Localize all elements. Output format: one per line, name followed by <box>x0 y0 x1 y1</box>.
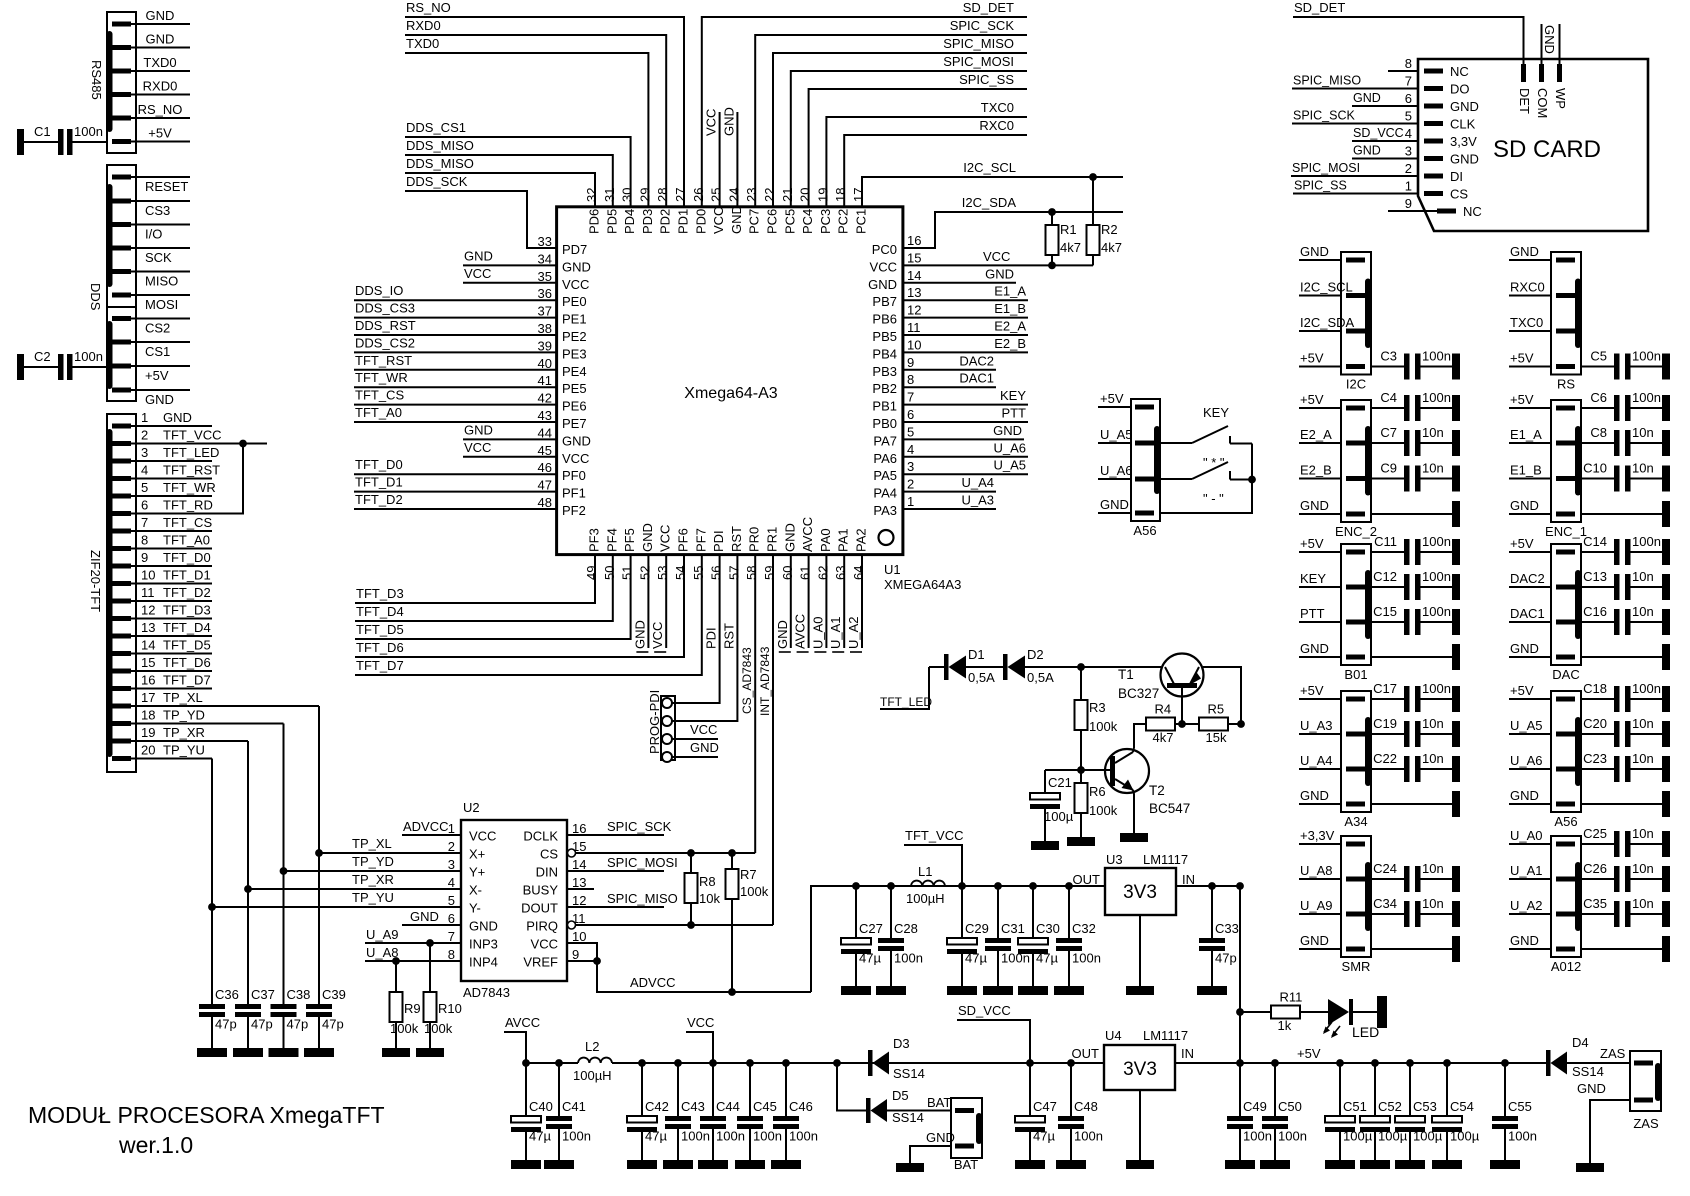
svg-text:SD CARD: SD CARD <box>1493 136 1601 163</box>
svg-text:SD_DET: SD_DET <box>1294 0 1345 15</box>
svg-text:9: 9 <box>141 550 148 565</box>
connector DDS box <box>107 165 136 307</box>
LED <box>1328 999 1349 1025</box>
svg-text:TP_YU: TP_YU <box>352 890 394 905</box>
svg-text:U3: U3 <box>1106 852 1123 867</box>
ZIF20-TFT pin 7 TFT_CS <box>112 529 131 534</box>
net label TFT_VCC <box>904 845 962 886</box>
svg-text:U_A4: U_A4 <box>961 475 994 490</box>
capacitor C53 100u <box>1409 1063 1411 1116</box>
svg-text:4k7: 4k7 <box>1153 730 1174 745</box>
svg-text:PC2: PC2 <box>836 209 851 234</box>
svg-text:100µH: 100µH <box>573 1068 612 1083</box>
svg-text:X-: X- <box>469 883 482 898</box>
svg-text:10n: 10n <box>1422 461 1444 476</box>
svg-text:R2: R2 <box>1101 222 1118 237</box>
svg-text:48: 48 <box>538 495 552 510</box>
svg-text:21: 21 <box>780 188 795 202</box>
svg-text:C44: C44 <box>716 1099 740 1114</box>
svg-text:C41: C41 <box>562 1099 586 1114</box>
svg-text:BC547: BC547 <box>1149 801 1190 816</box>
svg-text:3,3V: 3,3V <box>1450 134 1477 149</box>
ZIF20-TFT pin 20 TP_YU <box>112 756 131 761</box>
transistor T1 BC327 <box>1161 654 1204 697</box>
svg-text:47µ: 47µ <box>965 951 987 966</box>
U3 ground pin <box>1139 915 1141 986</box>
diode D5 SS14 <box>837 1063 868 1111</box>
wire TP_YD to U2 <box>284 870 462 872</box>
svg-text:DDS_CS2: DDS_CS2 <box>355 335 415 350</box>
svg-text:PROG-PDI: PROG-PDI <box>647 690 662 754</box>
svg-text:C38: C38 <box>287 987 311 1002</box>
svg-text:CS: CS <box>1450 187 1468 202</box>
svg-text:VCC: VCC <box>704 109 719 136</box>
transistor T2 BC547 <box>1105 749 1149 793</box>
svg-text:PE6: PE6 <box>562 399 587 414</box>
resistor R2 4k7 <box>1089 173 1097 181</box>
connector ZIF20-TFT box <box>107 414 136 772</box>
svg-text:C55: C55 <box>1508 1099 1532 1114</box>
svg-text:PF6: PF6 <box>676 528 691 552</box>
I2C pin GND <box>1346 258 1365 263</box>
svg-text:OUT: OUT <box>1072 1046 1100 1061</box>
svg-text:+5V: +5V <box>1300 351 1324 366</box>
wire T2 collector <box>1133 748 1134 752</box>
svg-text:TFT_D4: TFT_D4 <box>356 604 404 619</box>
svg-text:C1: C1 <box>34 124 51 139</box>
svg-text:24: 24 <box>726 188 741 202</box>
svg-text:GND: GND <box>690 740 719 755</box>
svg-text:20: 20 <box>141 743 155 758</box>
svg-text:DAC: DAC <box>1552 667 1579 682</box>
svg-text:10n: 10n <box>1632 861 1654 876</box>
svg-text:100n: 100n <box>894 951 923 966</box>
svg-text:IN: IN <box>1182 872 1195 887</box>
svg-text:E2_B: E2_B <box>1300 463 1332 478</box>
wire KEY common rail <box>1160 444 1252 514</box>
svg-text:100µ: 100µ <box>1044 809 1074 824</box>
diode D1 0,5A <box>929 666 944 668</box>
wire C33 junction down to +5V rail <box>1239 886 1241 1063</box>
svg-text:PD4: PD4 <box>622 209 637 234</box>
svg-text:C29: C29 <box>965 921 989 936</box>
svg-text:MODUŁ PROCESORA XmegaTFT: MODUŁ PROCESORA XmegaTFT <box>28 1102 385 1128</box>
svg-text:8: 8 <box>141 533 148 548</box>
svg-text:PF7: PF7 <box>693 528 708 552</box>
svg-text:SD_DET: SD_DET <box>963 0 1014 15</box>
svg-text:PB0: PB0 <box>872 416 897 431</box>
svg-text:PB3: PB3 <box>872 364 897 379</box>
svg-text:C15: C15 <box>1373 604 1397 619</box>
svg-text:I2C_SDA: I2C_SDA <box>962 195 1017 210</box>
svg-text:43: 43 <box>538 408 552 423</box>
svg-text:U_A8: U_A8 <box>366 945 399 960</box>
svg-text:100n: 100n <box>1072 951 1101 966</box>
svg-text:10n: 10n <box>1632 896 1654 911</box>
svg-text:GND: GND <box>782 523 797 552</box>
svg-text:PB6: PB6 <box>872 312 897 327</box>
svg-text:100n: 100n <box>1074 1129 1103 1144</box>
SD CARD pin 5 CLK <box>1424 121 1443 126</box>
svg-text:TFT_D7: TFT_D7 <box>163 673 211 688</box>
svg-text:TP_XR: TP_XR <box>352 872 394 887</box>
svg-text:D3: D3 <box>893 1036 910 1051</box>
svg-text:T1: T1 <box>1118 667 1134 682</box>
op-amp U2 AD7843 body <box>461 820 567 981</box>
svg-text:L1: L1 <box>918 864 932 879</box>
svg-text:A56: A56 <box>1554 814 1577 829</box>
capacitor C21 100u <box>1045 769 1081 771</box>
svg-text:RS485: RS485 <box>89 60 104 100</box>
capacitor C10 10n on ENC_1 E1_B <box>1556 476 1575 481</box>
svg-text:SPIC_SCK: SPIC_SCK <box>950 18 1015 33</box>
svg-text:GND: GND <box>1300 933 1329 948</box>
svg-text:A012: A012 <box>1551 959 1581 974</box>
svg-text:DAC2: DAC2 <box>1510 571 1545 586</box>
svg-text:DO: DO <box>1450 82 1470 97</box>
svg-text:TXD0: TXD0 <box>143 55 176 70</box>
svg-text:R11: R11 <box>1280 990 1303 1005</box>
RS485 pin RS_NO <box>112 116 131 121</box>
ZIF20-TFT pin 17 TP_XL <box>112 704 131 709</box>
svg-text:54: 54 <box>673 566 688 580</box>
svg-text:19: 19 <box>141 725 155 740</box>
svg-text:wer.1.0: wer.1.0 <box>118 1132 193 1158</box>
capacitor C35 10n on A012 U_A2 <box>1556 912 1575 917</box>
svg-text:20: 20 <box>798 188 813 202</box>
svg-text:NC: NC <box>1450 64 1469 79</box>
svg-text:C9: C9 <box>1380 461 1397 476</box>
wire T2 emitter to ground <box>1133 790 1134 833</box>
svg-text:C8: C8 <box>1590 425 1607 440</box>
svg-text:SS14: SS14 <box>892 1110 924 1125</box>
svg-text:37: 37 <box>538 304 552 319</box>
svg-text:47µ: 47µ <box>529 1129 551 1144</box>
svg-text:9: 9 <box>1405 196 1412 211</box>
svg-text:R1: R1 <box>1060 222 1077 237</box>
svg-text:10n: 10n <box>1632 461 1654 476</box>
capacitor C5 100n on RS +5V <box>1556 364 1575 369</box>
connector I2C box <box>1341 252 1371 375</box>
svg-text:R10: R10 <box>438 1001 462 1016</box>
svg-text:DAC1: DAC1 <box>959 371 994 386</box>
svg-text:Y-: Y- <box>469 901 481 916</box>
svg-text:CS2: CS2 <box>145 321 170 336</box>
svg-text:I/O: I/O <box>145 227 162 242</box>
svg-text:18: 18 <box>141 708 155 723</box>
svg-text:U1: U1 <box>884 562 901 577</box>
A56 pin U_A6 <box>1135 477 1154 482</box>
svg-text:SD_VCC: SD_VCC <box>1353 126 1404 140</box>
svg-text:17: 17 <box>141 690 155 705</box>
wire TP_YU vertical <box>211 759 213 908</box>
DDS pin +5V <box>112 364 131 369</box>
svg-text:39: 39 <box>538 338 552 353</box>
svg-text:E2_A: E2_A <box>994 319 1026 334</box>
DDS pin GND <box>112 388 131 393</box>
capacitor C34 10n on SMR U_A9 <box>1346 912 1365 917</box>
svg-text:1: 1 <box>907 494 914 509</box>
wire TP_XL to U2 <box>319 852 461 854</box>
capacitor C15 100n on B01 PTT <box>1346 620 1365 625</box>
svg-text:GND: GND <box>632 620 647 649</box>
svg-text:31: 31 <box>602 188 617 202</box>
svg-text:T2: T2 <box>1149 783 1165 798</box>
svg-text:12: 12 <box>572 893 586 908</box>
svg-text:4k7: 4k7 <box>1060 240 1081 255</box>
svg-text:VCC: VCC <box>711 207 726 234</box>
svg-text:GND: GND <box>1542 25 1557 54</box>
svg-text:11: 11 <box>907 320 921 335</box>
DDS pin SCK <box>112 246 131 251</box>
svg-text:ADVCC: ADVCC <box>403 819 449 834</box>
SD CARD pin COM <box>1539 64 1544 82</box>
U1 pin-1 index circle <box>879 530 894 545</box>
svg-text:PD5: PD5 <box>604 209 619 234</box>
svg-text:10: 10 <box>141 568 155 583</box>
svg-text:55: 55 <box>691 566 706 580</box>
svg-text:PB5: PB5 <box>872 329 897 344</box>
svg-text:C16: C16 <box>1583 604 1607 619</box>
svg-text:100n: 100n <box>74 349 103 364</box>
wire T2 base <box>1081 769 1110 771</box>
svg-text:63: 63 <box>833 566 848 580</box>
svg-text:INP3: INP3 <box>469 937 498 952</box>
svg-text:0,5A: 0,5A <box>968 670 995 685</box>
DDS pin CS2 <box>112 316 131 321</box>
capacitor C20 10n on A56 U_A5 <box>1556 732 1575 737</box>
svg-text:100n: 100n <box>1278 1129 1307 1144</box>
svg-text:BC327: BC327 <box>1118 686 1159 701</box>
svg-text:GND: GND <box>721 107 736 136</box>
RS485 pin GND <box>112 45 131 50</box>
svg-text:GND: GND <box>163 410 192 425</box>
BAT pin BAT <box>955 1108 974 1113</box>
SD CARD body <box>1418 59 1648 231</box>
svg-text:16: 16 <box>907 233 921 248</box>
A56 pin GND <box>1135 511 1154 516</box>
RS pin GND <box>1556 258 1575 263</box>
svg-text:10n: 10n <box>1422 751 1444 766</box>
svg-text:10k: 10k <box>699 891 720 906</box>
svg-text:3: 3 <box>448 857 455 872</box>
svg-text:TFT_D1: TFT_D1 <box>355 475 403 490</box>
svg-text:11: 11 <box>141 585 155 600</box>
svg-text:U_A1: U_A1 <box>1510 863 1543 878</box>
svg-text:TFT_LED: TFT_LED <box>880 695 932 709</box>
PROG-PDI pin 1 <box>662 698 672 708</box>
svg-text:WP: WP <box>1553 88 1568 109</box>
svg-text:R9: R9 <box>404 1001 421 1016</box>
wire TP_XR to U2 <box>248 888 461 890</box>
svg-text:+5V: +5V <box>1510 392 1534 407</box>
svg-text:GND: GND <box>1510 933 1539 948</box>
svg-text:VCC: VCC <box>687 1015 714 1030</box>
svg-text:MISO: MISO <box>145 274 178 289</box>
svg-text:PA1: PA1 <box>836 528 851 552</box>
svg-text:TFT_D4: TFT_D4 <box>163 620 211 635</box>
svg-text:13: 13 <box>141 620 155 635</box>
DDS pin CS3 <box>112 199 131 204</box>
svg-text:PA6: PA6 <box>873 451 897 466</box>
svg-text:X+: X+ <box>469 847 485 862</box>
svg-text:100n: 100n <box>1422 604 1451 619</box>
svg-text:45: 45 <box>538 443 552 458</box>
svg-text:U_A6: U_A6 <box>993 440 1026 455</box>
svg-text:GND: GND <box>1450 152 1479 167</box>
svg-text:DDS_RST: DDS_RST <box>355 318 416 333</box>
svg-text:9: 9 <box>572 947 579 962</box>
svg-text:+5V: +5V <box>1100 391 1124 406</box>
svg-text:BUSY: BUSY <box>523 883 559 898</box>
svg-text:2: 2 <box>907 477 914 492</box>
svg-text:PC6: PC6 <box>765 209 780 234</box>
svg-text:100n: 100n <box>753 1129 782 1144</box>
svg-text:TXC0: TXC0 <box>981 100 1014 115</box>
svg-text:TFT_D0: TFT_D0 <box>163 550 211 565</box>
svg-text:PC1: PC1 <box>854 209 869 234</box>
svg-text:TP_YD: TP_YD <box>163 708 205 723</box>
svg-text:C50: C50 <box>1278 1099 1302 1114</box>
svg-text:TXC0: TXC0 <box>1510 315 1543 330</box>
svg-text:4: 4 <box>141 463 148 478</box>
resistor R5 15k <box>1199 718 1228 731</box>
svg-text:C49: C49 <box>1243 1099 1267 1114</box>
svg-text:BAT: BAT <box>927 1095 951 1110</box>
svg-text:10n: 10n <box>1422 716 1444 731</box>
svg-text:30: 30 <box>620 188 635 202</box>
svg-text:GND: GND <box>868 277 897 292</box>
svg-text:5: 5 <box>907 424 914 439</box>
svg-text:VCC: VCC <box>469 829 496 844</box>
svg-text:PE0: PE0 <box>562 294 587 309</box>
svg-text:60: 60 <box>780 566 795 580</box>
svg-text:26: 26 <box>691 188 706 202</box>
capacitor C8 10n on ENC_1 E1_A <box>1556 441 1575 446</box>
svg-text:C22: C22 <box>1373 751 1397 766</box>
capacitor C27 47u <box>852 882 860 890</box>
ZIF20-TFT pin 10 TFT_D1 <box>112 581 131 586</box>
svg-text:SPIC_MOSI: SPIC_MOSI <box>607 855 678 870</box>
svg-text:1: 1 <box>448 821 455 836</box>
RS485 pin +5V <box>112 139 131 144</box>
RS485 pin RXD0 <box>112 92 131 97</box>
svg-text:TFT_D5: TFT_D5 <box>356 622 404 637</box>
svg-text:PF2: PF2 <box>562 503 586 518</box>
svg-text:E2_A: E2_A <box>1300 427 1332 442</box>
svg-text:100µ: 100µ <box>1450 1129 1480 1144</box>
SD CARD pin DET <box>1521 64 1526 82</box>
svg-text:TP_XL: TP_XL <box>352 836 392 851</box>
svg-text:U_A2: U_A2 <box>1510 898 1543 913</box>
svg-text:TFT_CS: TFT_CS <box>163 515 212 530</box>
svg-text:2: 2 <box>1405 161 1412 176</box>
svg-text:34: 34 <box>538 251 552 266</box>
svg-text:59: 59 <box>762 566 777 580</box>
svg-text:C6: C6 <box>1590 390 1607 405</box>
svg-text:E1_A: E1_A <box>994 284 1026 299</box>
svg-text:0,5A: 0,5A <box>1027 670 1054 685</box>
svg-text:10: 10 <box>572 929 586 944</box>
svg-text:PB1: PB1 <box>872 399 897 414</box>
svg-text:LM1117: LM1117 <box>1143 1028 1188 1043</box>
svg-text:U_A0: U_A0 <box>1510 828 1543 843</box>
svg-text:40: 40 <box>538 356 552 371</box>
connector B01 box <box>1341 544 1371 665</box>
svg-text:C39: C39 <box>322 987 346 1002</box>
svg-text:100n: 100n <box>1422 390 1451 405</box>
svg-text:C37: C37 <box>251 987 275 1002</box>
connector SMR box <box>1341 836 1371 957</box>
svg-text:1: 1 <box>141 410 148 425</box>
svg-text:D4: D4 <box>1572 1035 1589 1050</box>
connector A012 box <box>1551 836 1581 957</box>
svg-text:DDS: DDS <box>88 283 103 311</box>
svg-text:47p: 47p <box>251 1017 273 1032</box>
DDS pin RESET <box>112 175 131 180</box>
svg-text:RS_NO: RS_NO <box>138 102 183 117</box>
svg-text:C52: C52 <box>1378 1099 1402 1114</box>
svg-text:VCC: VCC <box>531 937 558 952</box>
svg-text:C4: C4 <box>1380 390 1397 405</box>
svg-text:GND: GND <box>145 392 174 407</box>
diode D3 SS14 <box>868 1050 873 1076</box>
PROG-PDI pin 3 <box>662 734 672 744</box>
svg-text:100n: 100n <box>1632 390 1661 405</box>
capacitor C39 47p <box>318 853 320 1004</box>
capacitor C52 100u <box>1374 1063 1376 1116</box>
capacitor C44 100n <box>712 1063 714 1116</box>
capacitor C3 100n on I2C +5V <box>1346 364 1365 369</box>
svg-text:100n: 100n <box>1632 681 1661 696</box>
svg-text:D5: D5 <box>892 1088 909 1103</box>
svg-text:C20: C20 <box>1583 716 1607 731</box>
ZIF20-TFT pin 14 TFT_D5 <box>112 651 131 656</box>
capacitor C55 100n <box>1504 1063 1506 1116</box>
svg-text:4: 4 <box>907 442 914 457</box>
svg-text:7: 7 <box>448 929 455 944</box>
ENC_1 pin GND to ground <box>1556 512 1575 517</box>
RS485 pin GND <box>112 22 131 27</box>
connector A34 box <box>1341 691 1371 812</box>
svg-text:C31: C31 <box>1001 921 1025 936</box>
svg-text:10n: 10n <box>1632 425 1654 440</box>
capacitor C11 100n on B01 +5V <box>1346 550 1365 555</box>
svg-text:62: 62 <box>815 566 830 580</box>
wire VCC rail left <box>526 1062 578 1064</box>
regulator U4 LM1117 3V3 <box>1104 1045 1175 1090</box>
net label AVCC <box>504 1032 526 1063</box>
svg-text:47: 47 <box>538 478 552 493</box>
svg-text:100n: 100n <box>1422 534 1451 549</box>
svg-text:TFT_D1: TFT_D1 <box>163 568 211 583</box>
DDS pin MOSI <box>112 293 131 298</box>
capacitor C51 100u <box>1339 1063 1341 1116</box>
connector RS box <box>1551 252 1581 375</box>
svg-text:NC: NC <box>1463 204 1482 219</box>
svg-text:C24: C24 <box>1373 861 1397 876</box>
svg-text:PC7: PC7 <box>747 209 762 234</box>
svg-text:DI: DI <box>1450 169 1463 184</box>
svg-text:DDS_MISO: DDS_MISO <box>406 156 474 171</box>
svg-text:16: 16 <box>572 821 586 836</box>
svg-text:KEY: KEY <box>1203 405 1229 420</box>
svg-text:ZIF20-TFT: ZIF20-TFT <box>88 550 103 612</box>
svg-text:TXD0: TXD0 <box>406 36 439 51</box>
svg-text:PA4: PA4 <box>873 486 897 501</box>
svg-text:DAC2: DAC2 <box>959 353 994 368</box>
svg-text:R3: R3 <box>1089 700 1106 715</box>
